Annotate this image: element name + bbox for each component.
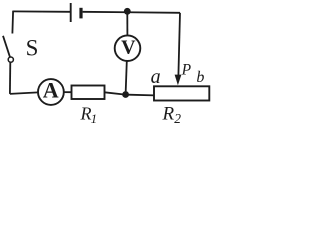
svg-text:R: R [162, 104, 175, 125]
switch S blade [3, 36, 10, 57]
wire voltmeter to bottom junction [126, 61, 127, 91]
battery cell [71, 3, 81, 22]
wire right vertical [178, 13, 180, 76]
svg-text:A: A [43, 77, 59, 102]
voltmeter V [115, 35, 141, 61]
wire left vertical upper [11, 11, 14, 34]
rheostat R2 [154, 86, 209, 100]
node junction dot bottom [122, 91, 129, 98]
ammeter A [38, 79, 64, 105]
svg-text:a: a [151, 66, 161, 88]
wire bottom-left horizontal [10, 92, 38, 94]
label R1 [80, 104, 98, 126]
node junction dot top [124, 8, 131, 15]
wire battery to top-right corner [83, 12, 180, 13]
svg-text:b: b [196, 69, 204, 86]
svg-text:P: P [181, 61, 192, 78]
svg-text:V: V [121, 37, 136, 59]
svg-text:2: 2 [174, 111, 181, 126]
wire junction to R2 terminal a [128, 94, 155, 97]
wire R1 to junction [105, 92, 124, 94]
svg-text:1: 1 [91, 111, 98, 126]
svg-text:S: S [26, 36, 39, 61]
wire junction to voltmeter [126, 11, 128, 35]
switch S hinge circle [8, 57, 13, 62]
slider arrow P head [175, 75, 182, 86]
wire ammeter to R1 [64, 91, 72, 93]
label R2 [162, 104, 182, 127]
wire left vertical lower [9, 62, 11, 94]
resistor R1 [72, 86, 105, 100]
wire top-left horizontal [13, 10, 70, 12]
